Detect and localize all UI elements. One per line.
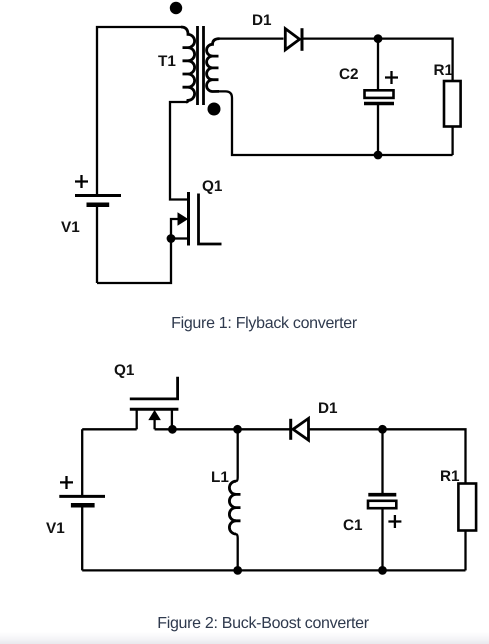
mosfet Q1 (fig2) drain stub	[136, 409, 138, 429]
Q1 source stub	[171, 409, 173, 429]
svg-text:T1: T1	[158, 53, 176, 70]
C2 plus sign	[385, 71, 398, 84]
T1 polarity dot secondary (bottom)	[208, 103, 221, 116]
Q1 source junction dot	[168, 425, 177, 434]
battery V1 bottom plate	[87, 203, 110, 208]
capacitor C2 negative plate	[364, 102, 394, 106]
T1 secondary winding ticks	[213, 56, 219, 80]
svg-text:R1: R1	[434, 62, 454, 79]
node dot top (C2 top)	[374, 34, 383, 43]
wire: C2 bottom lead	[377, 104, 379, 156]
svg-text:Figure 2: Buck-Boost converter: Figure 2: Buck-Boost converter	[157, 615, 370, 632]
node dot C1 top	[378, 425, 387, 434]
Q1 bulk arrow	[153, 418, 155, 429]
capacitor C1 top lead	[381, 429, 383, 494]
Q1 source junction dot	[167, 234, 176, 243]
svg-text:Q1: Q1	[114, 362, 135, 379]
T1 polarity dot primary (top)	[170, 2, 182, 14]
resistor R1 (fig2)	[458, 484, 476, 531]
C1 positive plate (box, bottom)	[368, 501, 396, 508]
C1 plus sign	[388, 515, 401, 528]
T1 primary winding ticks	[183, 48, 189, 88]
inductor L1 lead from top rail	[236, 429, 238, 481]
wire: T1 secondary top to D1	[220, 37, 284, 39]
Q1 gate lead and gate bar	[130, 377, 178, 399]
svg-text:Q1: Q1	[202, 178, 223, 195]
transformer T1 secondary winding	[207, 39, 220, 92]
wire: bottom rail fig2	[82, 569, 465, 571]
diode D1 (fig1)	[285, 29, 299, 50]
node dot C1 bottom	[378, 566, 387, 575]
wire: battery V1 negative to bottom rail	[96, 205, 98, 283]
transformer T1 core lines	[198, 26, 204, 105]
V1 plus sign	[60, 476, 73, 489]
svg-text:C1: C1	[343, 517, 363, 534]
node dot bottom (C2 bottom)	[374, 151, 383, 160]
diode D1 (fig2) cathode bar	[289, 419, 292, 440]
wire: V1 negative down to bottom rail	[81, 505, 83, 570]
Q1 bulk arrow	[171, 219, 179, 239]
mosfet Q1 (fig1) channel bar	[187, 192, 190, 246]
svg-text:D1: D1	[318, 400, 338, 417]
V1 bottom plate	[71, 503, 95, 508]
svg-text:Figure 1: Flyback converter: Figure 1: Flyback converter	[171, 315, 358, 332]
resistor R1 (fig1)	[444, 81, 461, 127]
wire: top rail middle segment (Q1 source to D1)	[155, 428, 291, 430]
wire: C2 top lead	[377, 39, 379, 90]
C1 negative plate (top)	[368, 493, 396, 497]
battery V1 (fig1) plus sign	[75, 175, 88, 188]
battery V1 (fig2) left wire	[81, 429, 83, 496]
svg-text:R1: R1	[440, 468, 460, 485]
wire: secondary bottom rail	[219, 91, 453, 155]
Q1 source line	[171, 237, 187, 239]
battery V1 top plate	[75, 194, 121, 197]
wire: top rail left segment (V1 to Q1 drain)	[82, 428, 137, 430]
L1 lead to bottom rail	[236, 534, 238, 570]
svg-text:C2: C2	[339, 66, 359, 83]
Q1 channel bar	[130, 408, 179, 411]
V1 top plate	[59, 495, 105, 498]
L1 winding ticks	[236, 494, 241, 520]
svg-text:L1: L1	[211, 469, 229, 486]
transformer T1 primary winding	[181, 27, 195, 102]
wire: R1 bottom lead	[464, 531, 466, 571]
wire: top rail right segment (D1 to R1)	[309, 429, 466, 483]
wire: T1 primary bottom to Q1 drain	[170, 102, 187, 200]
node dot L1 bottom	[233, 566, 242, 575]
wire: battery V1 positive up left side and top rail to T1 primary	[97, 27, 181, 196]
svg-text:V1: V1	[61, 219, 80, 236]
wire: C1 bottom lead	[381, 508, 383, 570]
D1 triangle	[293, 418, 309, 440]
capacitor C2 positive plate (box)	[365, 90, 394, 98]
Q1 gate bar and gate lead	[199, 194, 222, 245]
wire: R1 bottom lead	[451, 127, 453, 156]
node dot L1 top	[233, 425, 242, 434]
D1 cathode bar	[301, 28, 304, 51]
wire: Q1 source down to bottom rail	[97, 239, 171, 284]
wire: D1 to top-right corner and down to R1	[302, 39, 453, 81]
svg-text:D1: D1	[252, 12, 272, 29]
inductor L1 winding	[229, 481, 236, 534]
svg-text:V1: V1	[46, 520, 65, 537]
